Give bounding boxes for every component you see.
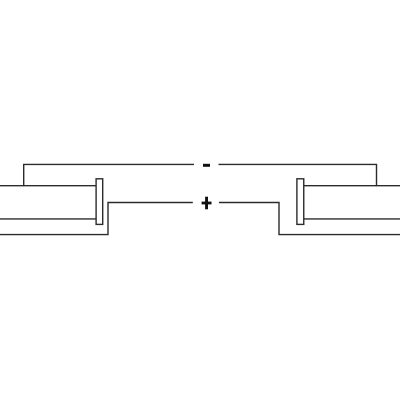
- wire: negative bus, left half: [24, 164, 194, 186]
- wire: negative bus, right half: [219, 164, 377, 186]
- wire: positive lead, right half: [219, 203, 400, 235]
- polarity label "+": [202, 197, 212, 210]
- wire: positive lead, left half: [0, 203, 193, 235]
- lamp body L1 (left tube, cut off at left edge): [0, 186, 97, 219]
- end-cap terminal of L2: [297, 179, 304, 225]
- polarity label "-": [203, 164, 210, 167]
- lamp body L2 (right tube, cut off at right edge): [304, 186, 400, 219]
- end-cap terminal of L1: [96, 179, 103, 225]
